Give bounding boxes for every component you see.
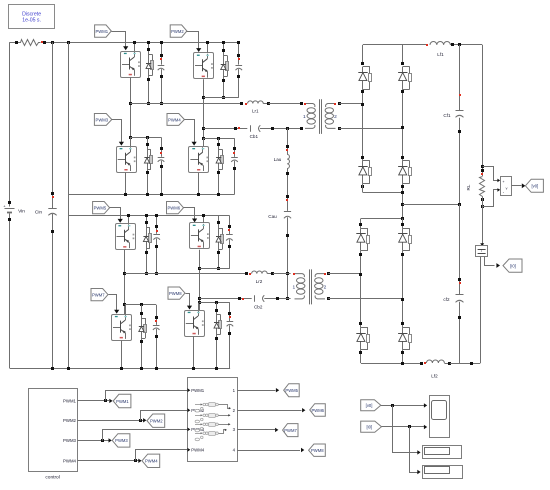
wire mid vertical link <box>68 42 70 368</box>
capacitor Cs5 <box>156 215 158 233</box>
wire Q7 link row <box>125 304 157 306</box>
wire T1 secondary bottom <box>339 128 403 130</box>
wire T2 secondary top <box>328 273 361 275</box>
transistor Q4 <box>189 147 209 173</box>
svg-text:PWM6: PWM6 <box>167 205 180 210</box>
svg-text:2: 2 <box>324 284 327 290</box>
inductor Lr2 <box>245 272 248 275</box>
transformer T2 primary winding <box>295 274 305 278</box>
wire output right vertical <box>482 45 484 176</box>
diode D6 <box>218 227 220 251</box>
capacitor Cau <box>284 211 291 213</box>
subsystem inner delay chains <box>195 404 201 406</box>
wire IM1 down to bus <box>480 257 482 363</box>
wire bridge2 phase A row <box>125 273 246 275</box>
wire subsystem out4 <box>237 450 300 452</box>
svg-text:PWM4: PWM4 <box>63 459 77 464</box>
svg-text:PWM2: PWM2 <box>63 418 77 423</box>
resistor RL <box>481 165 484 168</box>
wire PWM1 to gate <box>112 32 126 48</box>
wire PWM4 to gate <box>185 120 195 144</box>
wire Q3 link row <box>130 137 161 139</box>
diode D8 <box>216 313 218 336</box>
From tag PWM6 <box>167 202 184 214</box>
diode D4 <box>218 148 220 171</box>
wire i0 to scope <box>382 426 425 428</box>
Goto tag PWM3 <box>112 434 130 447</box>
svg-text:Cin: Cin <box>35 210 43 216</box>
From tag v0 out <box>361 400 381 411</box>
wire bottom bus <box>10 368 231 370</box>
wire rectifier1 bottom bus <box>363 192 403 194</box>
wire leg B2 row <box>199 268 229 270</box>
wire control PWM2 out <box>77 420 143 422</box>
wire Q1 collector stub <box>134 42 136 51</box>
diode D21 <box>360 228 362 251</box>
wire D5 stubs <box>146 215 148 226</box>
capacitor Cin <box>52 42 54 208</box>
wire VM plus tap <box>483 167 500 181</box>
svg-text:PWM1: PWM1 <box>95 29 108 34</box>
wire D3 stubs <box>147 137 149 148</box>
wire Q8 link row <box>199 302 230 304</box>
transistor Q8 <box>185 311 205 337</box>
wire Q3 emitter <box>125 173 127 195</box>
capacitor Cs6 <box>229 215 231 234</box>
wire PWM5 to gate <box>110 208 121 221</box>
inductor Lau <box>287 128 289 154</box>
Goto tag PWM2 <box>147 414 165 427</box>
wire Q2 collector stub <box>207 42 209 53</box>
wire rectifier2 top bus <box>361 218 403 220</box>
From tag PWM3 <box>94 114 111 126</box>
wire D7 stubs <box>141 305 143 317</box>
wire control PWM3 out <box>77 440 108 442</box>
svg-text:PWM3: PWM3 <box>96 117 109 122</box>
wire Q6 collector stub <box>203 215 205 223</box>
svg-text:PWM7: PWM7 <box>92 292 105 297</box>
svg-text:Cau: Cau <box>268 214 277 219</box>
transformer T1 secondary winding <box>326 104 336 108</box>
svg-text:PWM1: PWM1 <box>191 388 205 393</box>
node output tap <box>401 203 404 206</box>
transformer T2 core <box>309 269 311 304</box>
svg-text:Vin: Vin <box>18 208 25 214</box>
svg-text:PWM4: PWM4 <box>168 117 181 122</box>
wire VM minus tap <box>483 190 500 207</box>
svg-text:PWM3: PWM3 <box>115 438 128 443</box>
svg-text:PWM7: PWM7 <box>284 428 297 433</box>
svg-text:RL: RL <box>466 184 471 190</box>
wire bridge1 phase A row <box>130 103 242 105</box>
wire Q8 emitter <box>193 336 195 368</box>
diode bridge 1 left column <box>362 45 364 63</box>
inductor Lr1 <box>240 102 243 105</box>
capacitor Cs1 <box>161 42 163 64</box>
wire Q3 collector stub <box>130 137 132 146</box>
voltage measurement VM1 <box>501 177 512 196</box>
From tag PWM8 <box>168 287 185 299</box>
svg-text:Cb1: Cb1 <box>250 134 259 139</box>
svg-text:cf2: cf2 <box>443 297 450 302</box>
diode D22 <box>402 228 404 251</box>
wire PWM8 to gate <box>186 294 190 308</box>
svg-text:PWM1: PWM1 <box>63 399 77 404</box>
diode D3 <box>147 148 149 171</box>
wire leg B upper row <box>203 97 238 99</box>
wire rectifier1 top bus <box>363 44 427 46</box>
DC source Vin <box>9 42 11 206</box>
capacitor Cs7 <box>156 305 158 325</box>
wire Q4 collector stub <box>203 138 205 146</box>
control block <box>29 389 78 472</box>
diode D5 <box>146 226 148 250</box>
transistor Q5 <box>116 224 136 250</box>
display block 2 <box>423 466 463 479</box>
svg-text:[i0]: [i0] <box>366 424 372 429</box>
diode D13 <box>362 161 364 184</box>
svg-text:PWM5: PWM5 <box>94 205 107 210</box>
wire bridge2 top bus <box>69 215 230 217</box>
svg-text:1: 1 <box>292 284 295 290</box>
resistor Rin <box>17 40 41 46</box>
svg-text:PWM1: PWM1 <box>116 399 129 404</box>
diode D2 <box>223 54 225 78</box>
wire Q4 link row <box>203 138 234 140</box>
wire subsystem out1 <box>237 390 276 392</box>
svg-text:Lau: Lau <box>274 157 282 162</box>
svg-text:1: 1 <box>303 114 306 120</box>
Goto tag PWM7 <box>283 424 298 437</box>
From tag PWM4 <box>167 114 184 126</box>
wire T1 secondary top <box>339 103 363 105</box>
transistor Q1 <box>121 52 141 78</box>
wire v0 to scope <box>381 405 425 407</box>
diode D1 <box>148 53 150 77</box>
svg-text:PWM6: PWM6 <box>311 408 324 413</box>
transistor Q2 <box>194 53 214 79</box>
svg-text:Lf2: Lf2 <box>431 374 438 379</box>
transistor Q6 <box>190 223 210 249</box>
capacitor Cs4 <box>234 138 236 157</box>
svg-text:PWM2: PWM2 <box>150 419 163 424</box>
capacitor Cs8 <box>229 303 231 322</box>
wire D4 stubs <box>218 138 220 148</box>
diode bridge 1 right column <box>402 45 404 63</box>
diode bridge 2 left column <box>360 219 362 229</box>
svg-text:PWM2: PWM2 <box>171 29 184 34</box>
wire Q8 collector stub <box>198 303 200 310</box>
svg-text:PWM8: PWM8 <box>169 291 182 296</box>
From tag PWM7 <box>91 289 108 301</box>
wire PWM7 to gate <box>109 295 117 312</box>
inductor Lf1 <box>426 44 428 46</box>
wire Q7 emitter <box>121 341 123 369</box>
wire control PWM1 out <box>77 400 109 402</box>
Goto tag PWM4 <box>142 454 160 467</box>
wire PWM2 to gate <box>187 32 199 50</box>
svg-text:control: control <box>45 475 59 481</box>
wire PWM3 to gate <box>112 120 122 144</box>
display block 1 <box>423 446 462 459</box>
Goto tag v0 <box>525 179 543 192</box>
svg-text:1e-05 s.: 1e-05 s. <box>22 18 41 24</box>
transformer T1 primary winding <box>305 104 315 108</box>
wire output mid row <box>403 204 460 206</box>
wire Cb1 row <box>203 128 247 130</box>
svg-text:Lr2: Lr2 <box>256 279 263 284</box>
wire D8 stubs <box>216 303 218 313</box>
diode D11 <box>362 67 364 90</box>
transistor Q3 <box>117 147 137 173</box>
wire rectifier2 bottom bus <box>361 363 421 365</box>
wire D2 stubs <box>223 42 225 54</box>
capacitor Cs3 <box>161 137 163 157</box>
svg-text:2: 2 <box>334 114 337 120</box>
capacitor cf2 <box>459 204 461 294</box>
wire bridge1 bottom bus <box>69 194 235 196</box>
svg-text:[v0]: [v0] <box>531 184 538 189</box>
wire Q7 collector stub <box>125 305 127 314</box>
inductor Lf2 <box>420 362 423 365</box>
capacitor Cb2 <box>238 297 241 300</box>
transformer T1 core <box>319 99 321 134</box>
Goto tag i0 <box>503 259 522 272</box>
svg-text:[i0]: [i0] <box>510 263 516 268</box>
svg-text:PWM4: PWM4 <box>191 448 205 453</box>
svg-text:Lr1: Lr1 <box>252 109 259 114</box>
diode D12 <box>402 67 404 90</box>
transistor Q7 <box>112 315 132 341</box>
diode D23 <box>360 327 362 350</box>
transformer T2 secondary winding <box>315 274 325 278</box>
wire Q4 emitter <box>198 173 200 195</box>
wire PWM6 to gate <box>184 208 195 220</box>
wire VM1 to v0 <box>512 185 522 187</box>
Goto tag PWM6 <box>310 404 326 417</box>
wire D1 stubs <box>148 42 150 53</box>
svg-text:PWM8: PWM8 <box>311 448 324 453</box>
Goto tag PWM8 <box>309 444 326 456</box>
wire Q5 emitter <box>124 250 126 314</box>
Goto tag PWM5 <box>284 384 300 397</box>
diode bridge 2 right column <box>402 219 404 229</box>
svg-text:PWM5: PWM5 <box>285 388 298 393</box>
capacitor Cf1 <box>459 45 461 110</box>
wire Q6 emitter <box>199 250 201 310</box>
svg-text:[v0]: [v0] <box>366 403 373 408</box>
subsystem delays block <box>188 378 238 462</box>
From tag PWM1 <box>95 25 112 37</box>
node top bus junctions <box>51 41 54 44</box>
From tag PWM5 <box>93 202 110 214</box>
wire D6 stubs <box>218 215 220 226</box>
svg-text:PWM3: PWM3 <box>63 438 77 443</box>
wire subsystem out2 <box>237 410 302 412</box>
diode D7 <box>141 317 143 340</box>
svg-text:Cb2: Cb2 <box>254 304 263 309</box>
wire Q2 emitter <box>203 79 205 146</box>
wire Q5 collector stub <box>128 215 130 223</box>
From tag PWM2 <box>170 25 187 37</box>
wire v0 to display1 <box>393 406 418 453</box>
wire Cb2 row <box>199 298 252 300</box>
svg-text:Cf1: Cf1 <box>443 113 451 118</box>
wire subsystem out3 <box>237 429 275 431</box>
wire i0 to display2 <box>410 427 418 473</box>
svg-text:v: v <box>506 187 508 191</box>
wire top bus <box>10 42 17 44</box>
current measurement IM1 <box>480 243 484 246</box>
svg-text:Lf1: Lf1 <box>437 52 444 57</box>
Goto tag PWM1 <box>113 394 131 407</box>
diode D14 <box>402 161 404 184</box>
svg-text:PWM4: PWM4 <box>145 459 158 464</box>
scope block <box>430 396 450 438</box>
capacitor Cs2 <box>238 42 240 64</box>
From tag i0 out <box>361 421 382 432</box>
wire Q1 emitter <box>130 77 132 146</box>
capacitor Cb1 <box>234 127 237 130</box>
wire IM1 to i0 <box>485 257 495 266</box>
wire T2 secondary bottom <box>328 298 403 300</box>
powergui block <box>9 5 55 29</box>
diode D24 <box>402 327 404 350</box>
wire control PWM4 out <box>77 460 138 462</box>
